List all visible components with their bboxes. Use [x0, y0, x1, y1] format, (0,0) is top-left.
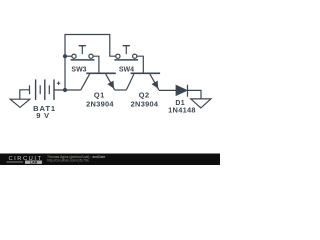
pushbutton SW3 [71, 46, 95, 60]
svg-text:Q2: Q2 [139, 90, 150, 99]
diode D1 [176, 85, 188, 97]
wire SW3 feed [65, 55, 72, 57]
ground (battery negative) [10, 90, 30, 108]
wire Q2 emitter to D1 anode [159, 89, 177, 91]
junction dot rail/SW3 [63, 54, 67, 58]
transistor Q1 [81, 73, 116, 90]
svg-text:SW4: SW4 [119, 67, 134, 74]
svg-text:LAB: LAB [30, 161, 38, 165]
svg-text:1N4148: 1N4148 [168, 106, 196, 115]
wire battery+ bus to Q1 collector [54, 89, 81, 91]
wire Q1 emitter to Q2 collector [115, 89, 127, 91]
svg-text:2N3904: 2N3904 [86, 99, 114, 108]
pushbutton SW4 [114, 46, 138, 60]
wire SW3 to Q1 base [93, 56, 99, 72]
ground (output) [191, 99, 211, 108]
svg-text:9 V: 9 V [36, 111, 50, 120]
svg-text:SW3: SW3 [71, 67, 86, 74]
wire D1 cathode to ground [187, 90, 201, 98]
wire +V rail to SW4 [65, 35, 116, 91]
junction dot battery+/rail [63, 88, 67, 92]
svg-text:http://circuitlab.com/c/5c79k: http://circuitlab.com/c/5c79k [47, 159, 89, 163]
svg-text:2N3904: 2N3904 [131, 99, 159, 108]
battery BAT1 [30, 79, 61, 100]
svg-text:Q1: Q1 [94, 90, 105, 99]
wire SW4 to Q2 base [137, 56, 144, 72]
transistor Q2 [126, 73, 160, 90]
footer bar [0, 154, 220, 166]
